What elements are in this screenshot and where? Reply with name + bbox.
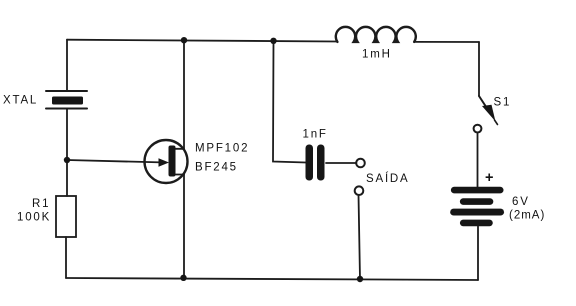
svg-text:1nF: 1nF <box>303 129 328 141</box>
svg-text:(2mA): (2mA) <box>509 210 545 222</box>
svg-text:S1: S1 <box>494 97 512 109</box>
svg-text:R1: R1 <box>32 198 50 210</box>
svg-text:6V: 6V <box>512 196 530 208</box>
svg-text:+: + <box>485 170 495 186</box>
svg-text:1mH: 1mH <box>362 49 392 61</box>
svg-text:XTAL: XTAL <box>3 95 38 107</box>
svg-text:BF245: BF245 <box>195 162 238 174</box>
svg-text:SAÍDA: SAÍDA <box>366 172 410 185</box>
svg-text:MPF102: MPF102 <box>195 143 249 155</box>
svg-text:100K: 100K <box>17 212 51 224</box>
